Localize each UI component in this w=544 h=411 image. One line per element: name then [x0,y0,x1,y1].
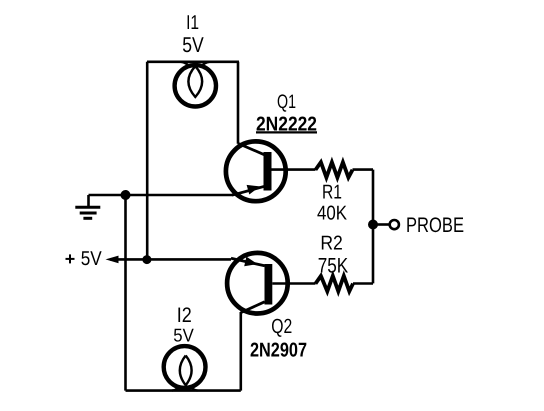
wire from node A down to bottom loop [124,195,127,391]
resistor R1 [316,162,353,177]
wire right vertical (I1 right leg down to Q1 collector) [237,62,240,144]
underline 2N2222 [256,131,317,133]
svg-text:5V: 5V [81,248,103,270]
wire Q2 collector vertical [240,312,243,391]
wire top (I1 loop top) [147,60,239,63]
lamp I1 [175,62,216,107]
ground [75,195,100,218]
node junction C probe [368,220,378,230]
svg-text:R1: R1 [322,181,342,203]
wire R2 to right rail [353,282,373,285]
wire Q1 collector diagonal [238,143,265,154]
svg-text:Q2: Q2 [271,315,292,338]
svg-text:R2: R2 [320,233,343,255]
wire right rail vertical [372,170,375,284]
transistor Q1 [226,141,286,201]
svg-text:40K: 40K [317,202,348,224]
wire +5V rail [110,258,231,261]
wire Q1 base to R1 [272,168,316,171]
node junction A [121,190,131,200]
lamp I2 [164,346,206,391]
wire left vertical (I1 left leg down to +5V line) [146,62,149,260]
svg-text:PROBE: PROBE [406,214,464,237]
svg-text:5V: 5V [182,33,204,57]
svg-text:75K: 75K [318,254,349,277]
wire R1 to right rail [353,168,374,171]
wire bottom (I2 loop bottom) [126,389,241,392]
arrow +5V pointing left [106,256,119,264]
label +5V plus [66,254,75,263]
svg-text:2N2907: 2N2907 [250,340,307,362]
wire Q2 base to R2 [272,282,315,285]
probe terminal open circle [390,220,399,229]
wire probe stub [373,223,389,226]
wire Q1 emitter diagonal [232,186,265,195]
svg-text:5V: 5V [173,324,194,345]
resistor R2 [316,276,354,291]
wire Q2 emitter diagonal [231,258,265,266]
wire Q2 collector diagonal [241,302,265,313]
svg-text:I1: I1 [186,12,199,34]
node junction B [142,255,151,264]
transistor Q2 [227,253,288,314]
wire ground rail [89,194,234,197]
svg-text:Q1: Q1 [277,91,296,113]
